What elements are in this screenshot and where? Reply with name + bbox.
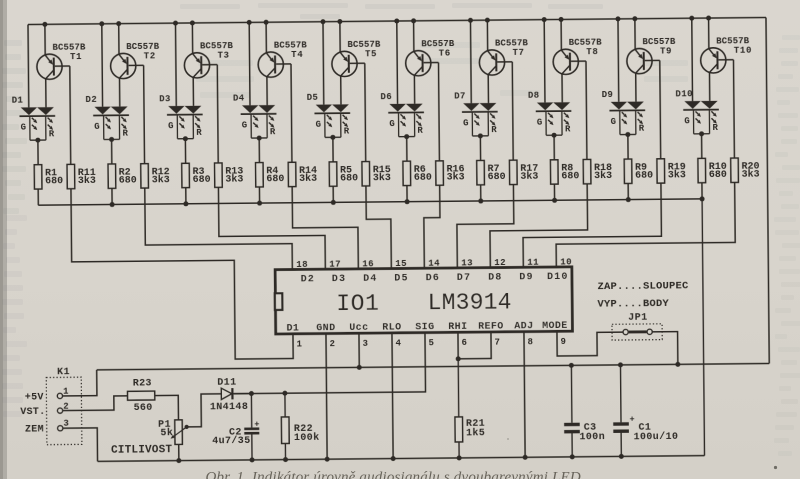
node LED D7 common cathode xyxy=(478,133,483,160)
svg-text:ADJ: ADJ xyxy=(514,321,533,332)
transistor T1 BC557B xyxy=(37,42,87,79)
svg-text:VST.: VST. xyxy=(20,407,45,418)
resistor R6 680 xyxy=(403,161,432,186)
svg-text:3k3: 3k3 xyxy=(152,174,170,186)
svg-text:680: 680 xyxy=(488,172,506,183)
wire K1 pin3 to ground rail xyxy=(63,428,98,462)
wire +5V rail to LED D7 green anode xyxy=(469,20,472,103)
potentiometer P1 5k (CITLIVOST) xyxy=(158,420,189,445)
transistor T9 BC557B xyxy=(627,37,677,74)
svg-text:R: R xyxy=(49,129,55,139)
svg-text:VYP....BODY: VYP....BODY xyxy=(597,298,669,311)
wire +5V rail to T5 emitter xyxy=(320,19,342,52)
svg-text:13: 13 xyxy=(461,258,473,268)
wire T10 base to R20 xyxy=(718,60,734,159)
wire T9 base to R19 xyxy=(645,60,661,159)
dual-color LED D9 (G/R) xyxy=(602,90,646,135)
connector K1 xyxy=(46,367,82,445)
node LED D6 common cathode xyxy=(404,134,409,161)
svg-text:4: 4 xyxy=(396,338,402,348)
node LED D4 common cathode xyxy=(257,136,262,163)
svg-text:T3: T3 xyxy=(217,51,229,61)
svg-text:G: G xyxy=(463,119,469,129)
svg-text:G: G xyxy=(537,118,543,128)
svg-text:R: R xyxy=(196,128,202,138)
wire R18 to IC pin (LED D8 drive) xyxy=(490,184,588,268)
resistor R2 680 xyxy=(108,164,137,189)
wire K1 pin1 to +5V line xyxy=(62,370,96,396)
svg-text:GND: GND xyxy=(316,323,335,334)
svg-text:R23: R23 xyxy=(133,378,152,389)
svg-text:R: R xyxy=(270,127,276,137)
svg-text:G: G xyxy=(389,119,395,129)
resistor R11 3k3 xyxy=(67,164,96,189)
node VST input label xyxy=(20,407,45,418)
dual-color LED D5 (G/R) xyxy=(307,93,351,138)
capacitor C1 100u/10 xyxy=(613,362,679,459)
svg-text:3k3: 3k3 xyxy=(447,171,465,183)
wire K1 pin2 to R23 xyxy=(63,396,128,411)
node +5V input label xyxy=(25,392,44,403)
svg-text:R: R xyxy=(344,126,350,136)
node signal (C2/R22/SIG) xyxy=(249,391,288,396)
svg-text:+: + xyxy=(254,419,259,429)
capacitor C3 100n xyxy=(564,363,606,460)
wire D11 cathode to signal node xyxy=(234,393,252,395)
node LED D9 common cathode xyxy=(625,132,630,159)
svg-text:5: 5 xyxy=(429,338,435,348)
svg-text:D11: D11 xyxy=(217,378,236,389)
svg-text:D7: D7 xyxy=(457,273,472,284)
wire IC pin 9 MODE to jumper JP1 xyxy=(557,331,623,356)
svg-text:D9: D9 xyxy=(602,90,614,100)
wire +5V rail to LED D6 green anode xyxy=(396,21,399,104)
transistor T7 BC557B xyxy=(479,38,529,75)
wire T4 collector to LED D4 red anode xyxy=(266,77,268,105)
wire +5V rail to LED D2 green anode xyxy=(101,24,104,107)
svg-text:D5: D5 xyxy=(307,93,319,103)
wire JP1 to +5V line xyxy=(652,332,680,368)
wire T3 base to R13 xyxy=(202,65,218,164)
wire R19 to IC pin (LED D9 drive) xyxy=(523,183,662,267)
svg-text:RLO: RLO xyxy=(382,322,401,333)
wire R12 to IC pin (LED D2 drive) xyxy=(145,187,293,271)
resistor R19 3k3 xyxy=(657,159,686,184)
node LED D10 common cathode xyxy=(699,131,704,158)
wire T2 collector to LED D2 red anode xyxy=(119,78,121,106)
wire +5V rail to T10 emitter xyxy=(689,16,711,49)
resistor R14 3k3 xyxy=(288,162,317,187)
resistor R15 3k3 xyxy=(362,161,391,186)
resistor R16 3k3 xyxy=(436,161,465,186)
wire R3 680 to cathode rail xyxy=(183,188,188,207)
svg-text:10: 10 xyxy=(560,257,572,267)
dual-color LED D6 (G/R) xyxy=(380,92,424,137)
wire T1 base to R11 xyxy=(55,66,71,165)
svg-text:D3: D3 xyxy=(159,94,171,104)
label CITLIVOST xyxy=(111,444,173,457)
wire +5V rail to LED D10 green anode xyxy=(691,18,694,101)
svg-text:9: 9 xyxy=(560,337,566,347)
svg-text:T5: T5 xyxy=(365,49,377,59)
svg-text:12: 12 xyxy=(494,258,506,268)
wire R13 to IC pin (LED D3 drive) xyxy=(218,186,325,270)
resistor R17 3k3 xyxy=(509,160,538,185)
resistor R1 680 xyxy=(34,164,63,189)
wire +5V rail to LED D9 green anode xyxy=(617,19,620,102)
svg-text:3k3: 3k3 xyxy=(668,169,686,181)
wire IC pin 3 Ucc to +5V line xyxy=(356,333,361,370)
svg-text:100k: 100k xyxy=(294,432,320,444)
svg-text:11: 11 xyxy=(527,257,539,267)
svg-text:680: 680 xyxy=(340,173,358,184)
svg-text:680: 680 xyxy=(119,175,137,186)
wire T5 collector to LED D5 red anode xyxy=(340,76,342,104)
svg-text:3k3: 3k3 xyxy=(299,173,317,185)
resistor R3 680 xyxy=(182,163,211,188)
svg-text:R: R xyxy=(491,125,497,135)
LED cathode-resistor common rail xyxy=(38,199,702,205)
dual-color LED D8 (G/R) xyxy=(528,91,572,136)
svg-text:G: G xyxy=(611,117,617,127)
svg-text:3k3: 3k3 xyxy=(225,173,243,185)
svg-text:D10: D10 xyxy=(547,272,569,283)
resistor R21 1k5 xyxy=(454,359,485,461)
wire +5V rail to T8 emitter xyxy=(542,17,564,50)
wire R4 680 to cathode rail xyxy=(257,187,262,206)
svg-text:T8: T8 xyxy=(586,47,598,57)
svg-text:RHI: RHI xyxy=(448,322,467,333)
node LED D3 common cathode xyxy=(183,136,188,163)
wire +5V rail to LED D5 green anode xyxy=(322,22,325,105)
svg-text:IO1: IO1 xyxy=(336,291,379,317)
svg-text:D3: D3 xyxy=(332,274,347,285)
svg-text:R: R xyxy=(712,123,718,133)
svg-text:G: G xyxy=(242,121,248,131)
wire P1 wiper to D11 anode xyxy=(188,394,222,427)
svg-text:REFO: REFO xyxy=(478,322,504,333)
svg-text:14: 14 xyxy=(428,258,440,268)
transistor T8 BC557B xyxy=(553,38,603,75)
wire R15 to IC pin (LED D5 drive) xyxy=(366,186,391,269)
svg-text:6: 6 xyxy=(461,338,467,348)
wire IC pin 8 ADJ to ground rail xyxy=(521,332,527,460)
svg-text:3k3: 3k3 xyxy=(594,170,612,182)
svg-text:D6: D6 xyxy=(426,273,441,284)
wire R17 to IC pin (LED D7 drive) xyxy=(457,185,515,268)
svg-text:+5V: +5V xyxy=(25,392,44,403)
node LED D1 common cathode xyxy=(35,138,40,165)
svg-text:D9: D9 xyxy=(519,272,534,283)
wire T8 base to R18 xyxy=(571,61,587,160)
wire T4 base to R14 xyxy=(276,64,292,163)
wire R6 680 to cathode rail xyxy=(404,185,409,204)
label VYP....BODY xyxy=(597,298,669,311)
svg-text:680: 680 xyxy=(45,176,63,187)
svg-text:7: 7 xyxy=(494,337,500,347)
svg-text:R: R xyxy=(565,124,571,134)
svg-text:15: 15 xyxy=(395,259,407,269)
svg-text:D8: D8 xyxy=(528,91,540,101)
svg-text:16: 16 xyxy=(362,259,374,269)
wire T6 base to R16 xyxy=(424,63,440,162)
svg-text:4u7/35: 4u7/35 xyxy=(212,435,251,447)
wire R11 to IC pin (LED D1 drive) xyxy=(71,187,293,361)
svg-text:SIG: SIG xyxy=(415,322,434,333)
wire T7 collector to LED D7 red anode xyxy=(487,75,489,103)
wire T6 collector to LED D6 red anode xyxy=(413,75,415,103)
svg-text:3: 3 xyxy=(363,339,369,349)
wire R1 680 to cathode rail xyxy=(37,189,39,205)
svg-text:D6: D6 xyxy=(380,92,392,102)
svg-text:560: 560 xyxy=(134,403,153,414)
svg-text:680: 680 xyxy=(709,170,727,181)
svg-text:LM3914: LM3914 xyxy=(428,290,512,317)
resistor R4 680 xyxy=(256,162,285,187)
resistor R18 3k3 xyxy=(583,159,612,184)
svg-text:2: 2 xyxy=(330,339,336,349)
svg-text:1N4148: 1N4148 xyxy=(210,402,249,413)
ground rail (bottom) xyxy=(98,456,705,462)
wire +5V rail to LED D4 green anode xyxy=(248,22,251,105)
wire +5V rail to T6 emitter xyxy=(394,18,416,51)
svg-text:18: 18 xyxy=(296,260,308,270)
svg-text:G: G xyxy=(21,123,27,133)
svg-text:T1: T1 xyxy=(70,52,82,62)
svg-text:T9: T9 xyxy=(660,46,672,56)
svg-text:D2: D2 xyxy=(85,95,97,105)
svg-text:MODE: MODE xyxy=(542,321,568,332)
dual-color LED D3 (G/R) xyxy=(159,94,203,139)
wire R16 to IC pin (LED D6 drive) xyxy=(424,185,441,268)
wire T10 collector to LED D10 red anode xyxy=(708,72,710,100)
node LED D8 common cathode xyxy=(552,133,557,160)
svg-text:3k3: 3k3 xyxy=(78,175,96,187)
svg-text:ZAP....SLOUPEC: ZAP....SLOUPEC xyxy=(597,280,689,293)
resistor R20 3k3 xyxy=(731,158,760,183)
capacitor C2 4u7/35 xyxy=(212,393,260,462)
transistor T6 BC557B xyxy=(405,39,455,76)
svg-text:100n: 100n xyxy=(579,432,605,443)
svg-text:680: 680 xyxy=(635,170,653,181)
wire T9 collector to LED D9 red anode xyxy=(635,73,637,101)
svg-text:D5: D5 xyxy=(394,273,409,284)
svg-text:CITLIVOST: CITLIVOST xyxy=(111,444,173,457)
svg-text:3: 3 xyxy=(63,419,69,429)
svg-text:D10: D10 xyxy=(675,89,693,99)
svg-text:680: 680 xyxy=(414,172,432,183)
wire R10 680 to cathode rail xyxy=(699,183,704,202)
svg-text:T7: T7 xyxy=(512,48,524,58)
wire T7 base to R17 xyxy=(497,62,513,161)
svg-text:T4: T4 xyxy=(291,50,303,60)
svg-text:K1: K1 xyxy=(57,367,70,378)
diode D11 1N4148 xyxy=(210,377,249,413)
wire +5V rail to T2 emitter xyxy=(99,21,121,54)
dual-color LED D1 (G/R) xyxy=(12,95,56,140)
+5V supply rail (top) xyxy=(28,17,766,24)
op-amp / IC IO1 LM3914 xyxy=(275,267,573,335)
dual-color LED D4 (G/R) xyxy=(233,93,277,138)
wire +5V rail right side down to +5V line xyxy=(766,17,769,363)
caption Obr. 1 xyxy=(206,470,581,479)
resistor R22 100k xyxy=(281,393,320,462)
transistor T4 BC557B xyxy=(258,40,308,77)
wire T2 base to R12 xyxy=(129,65,145,164)
resistor R12 3k3 xyxy=(141,163,170,188)
label ZAP....SLOUPEC xyxy=(597,280,689,293)
svg-text:R: R xyxy=(639,124,645,134)
svg-text:5k: 5k xyxy=(160,427,173,439)
svg-text:680: 680 xyxy=(561,171,579,182)
wire P1 bottom to ground rail xyxy=(176,444,181,463)
wire R7 680 to cathode rail xyxy=(478,185,483,204)
IC pin numbers 18..10 (top row) xyxy=(296,257,572,270)
svg-text:D1: D1 xyxy=(286,323,299,334)
transistor T5 BC557B xyxy=(332,40,382,77)
svg-text:1: 1 xyxy=(63,387,69,397)
resistor R9 680 xyxy=(624,159,653,184)
dual-color LED D2 (G/R) xyxy=(85,95,129,140)
resistor R13 3k3 xyxy=(215,163,244,188)
svg-text:17: 17 xyxy=(329,259,341,269)
svg-text:1: 1 xyxy=(297,339,303,349)
svg-text:D4: D4 xyxy=(233,94,245,104)
wire T5 base to R15 xyxy=(350,63,366,162)
wire R5 680 to cathode rail xyxy=(331,186,336,205)
IC pin numbers 1..9 (bottom row) xyxy=(297,337,566,350)
svg-text:G: G xyxy=(94,122,100,132)
node LED D5 common cathode xyxy=(330,135,335,162)
svg-text:D4: D4 xyxy=(363,274,378,285)
transistor T3 BC557B xyxy=(184,41,234,78)
wire R20 to IC pin (LED D10 drive) xyxy=(556,182,736,267)
svg-text:T6: T6 xyxy=(439,48,451,58)
wire IC pin 5 SIG to signal node xyxy=(233,333,425,394)
wire +5V rail to LED D8 green anode xyxy=(543,20,546,103)
wire R8 680 to cathode rail xyxy=(552,184,557,203)
svg-text:8: 8 xyxy=(527,337,533,347)
wire IC pin 6 RHI / pin 7 REFO tie xyxy=(455,332,491,361)
wire R23 to P1 top xyxy=(155,395,179,420)
svg-text:3k3: 3k3 xyxy=(373,172,391,184)
svg-text:3k3: 3k3 xyxy=(742,168,760,180)
svg-text:D2: D2 xyxy=(301,274,316,285)
svg-text:3k3: 3k3 xyxy=(520,170,538,182)
wire +5V rail to T1 emitter xyxy=(42,22,47,55)
svg-text:680: 680 xyxy=(266,174,284,185)
svg-text:+: + xyxy=(630,414,635,424)
wire T3 collector to LED D3 red anode xyxy=(192,77,194,105)
svg-text:R: R xyxy=(122,129,128,139)
svg-text:JP1: JP1 xyxy=(628,313,648,324)
transistor T2 BC557B xyxy=(110,42,160,79)
wire +5V rail to LED D3 green anode xyxy=(174,23,177,106)
svg-text:R: R xyxy=(417,126,423,136)
wire R9 680 to cathode rail xyxy=(626,183,631,202)
svg-text:100u/10: 100u/10 xyxy=(633,431,678,443)
resistor R8 680 xyxy=(550,160,579,185)
svg-text:680: 680 xyxy=(193,175,211,186)
svg-text:ZEM: ZEM xyxy=(25,424,44,435)
node LED D2 common cathode xyxy=(109,137,114,164)
transistor T10 BC557B xyxy=(700,36,752,73)
wire +5V rail to T4 emitter xyxy=(247,20,269,53)
wire cathode rail down to ground rail (right) xyxy=(702,199,704,456)
wire R14 to IC pin (LED D4 drive) xyxy=(292,186,358,270)
wire T8 collector to LED D8 red anode xyxy=(561,74,563,102)
dual-color LED D7 (G/R) xyxy=(454,91,498,136)
+5V line from K1 to right side xyxy=(97,363,770,369)
svg-text:D7: D7 xyxy=(454,92,466,102)
resistor R7 680 xyxy=(477,160,506,185)
svg-text:G: G xyxy=(684,116,690,126)
dual-color LED D10 (G/R) xyxy=(675,89,719,134)
svg-text:T10: T10 xyxy=(734,46,752,56)
wire IC pin 2 GND to ground rail xyxy=(323,333,329,461)
svg-text:G: G xyxy=(316,120,322,130)
wire +5V rail to T7 emitter xyxy=(468,18,490,51)
wire T1 collector to LED D1 red anode xyxy=(45,79,47,107)
svg-text:Obr. 1. Indikátor úrovně audio: Obr. 1. Indikátor úrovně audiosignálu s … xyxy=(206,470,581,479)
svg-text:D1: D1 xyxy=(12,96,24,106)
resistor R10 680 xyxy=(698,158,727,183)
svg-text:T2: T2 xyxy=(144,51,156,61)
svg-text:G: G xyxy=(168,121,174,131)
resistor R5 680 xyxy=(329,162,358,187)
wire +5V rail to T3 emitter xyxy=(173,20,195,53)
svg-text:D8: D8 xyxy=(488,272,503,283)
wire IC pin 4 RLO to ground rail xyxy=(389,333,395,461)
jumper JP1 xyxy=(612,313,662,340)
wire +5V rail to LED D1 green anode xyxy=(27,25,30,108)
wire +5V rail to T9 emitter xyxy=(615,16,637,49)
svg-text:Ucc: Ucc xyxy=(349,323,368,334)
svg-text:1k5: 1k5 xyxy=(466,427,485,439)
node ZEM ground label xyxy=(25,424,44,435)
wire R2 680 to cathode rail xyxy=(109,188,114,207)
resistor R23 560 xyxy=(127,378,155,414)
